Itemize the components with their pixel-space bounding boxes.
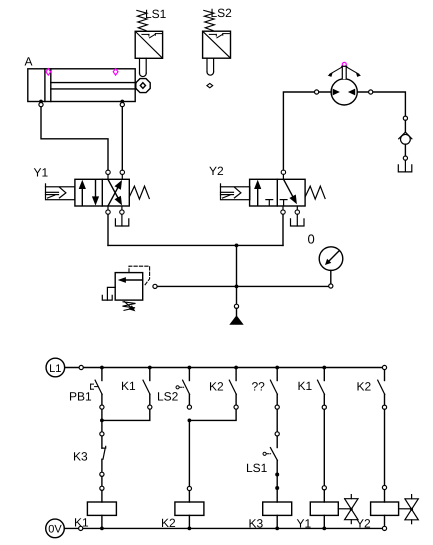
coil Y2 upper ring [382, 485, 386, 489]
wire gauge stem [330, 270, 332, 283]
wire K1b branch down [323, 409, 325, 485]
valve symbol Y2 [399, 495, 419, 524]
wire K2a to merge [192, 409, 237, 420]
valve V1 port rings [106, 170, 125, 214]
roller on cylinder rod [136, 79, 150, 93]
coil Y1 upper ring [322, 486, 326, 490]
contact PB1 label [69, 389, 92, 403]
air motor rotation arrow left [328, 67, 342, 77]
bottom rail junction K2 [188, 527, 192, 531]
contact LS1 label [246, 461, 268, 475]
junction LS1 lower [275, 473, 279, 477]
contact K1a (NO) [143, 368, 150, 405]
connection ring source [234, 304, 238, 308]
limit switch LS2 plunger [207, 58, 214, 75]
wire ring to coil K2 [188, 491, 190, 502]
valve V1 right box crossed arrow up [108, 180, 122, 206]
contact K3 (NC) [102, 436, 106, 472]
contact ?? label [252, 379, 266, 393]
svg-text:LS2: LS2 [157, 390, 179, 404]
wire K2b branch down [384, 409, 386, 485]
wire junction to coil K3 [276, 488, 278, 502]
coil K1 label [74, 515, 89, 529]
wire ring to coil K1 [101, 491, 103, 503]
contact K2b lower ring [382, 405, 386, 409]
relay coil K3 [263, 502, 292, 515]
wire valve V2 supply down [282, 214, 284, 245]
junction supply left [235, 244, 239, 248]
svg-text:K1: K1 [121, 379, 136, 393]
wire ring to coil Y1 [323, 490, 325, 502]
air motor rotation arrow right [347, 67, 361, 77]
junction supply lower [235, 285, 239, 289]
contact K2b label [357, 379, 372, 393]
bottom rail junction K1 [100, 527, 104, 531]
svg-text:PB1: PB1 [69, 389, 92, 403]
wire check valve to ring [404, 144, 406, 156]
bottom rail end ring Y2 [382, 526, 386, 530]
svg-text:A: A [25, 55, 33, 69]
contact K1b lower ring [322, 405, 326, 409]
contact LS2 lower ring [187, 405, 191, 409]
connection ring gauge [329, 284, 333, 288]
wire coil K2 to 0V rail [188, 515, 190, 528]
valve V2 left box up arrow [254, 180, 261, 206]
valve V2 return spring [305, 186, 325, 199]
wire cylinder right port to valve V1 [121, 107, 123, 170]
coil K3 upper junction [275, 486, 279, 490]
valve symbol Y1 [338, 495, 358, 524]
connection ring relief valve output [153, 284, 157, 288]
wire ?? branch down [276, 409, 278, 431]
svg-text:0: 0 [308, 232, 315, 247]
svg-text:K3: K3 [73, 450, 88, 464]
contact PB1 (NO pushbutton) [91, 368, 103, 405]
wire relief valve to gauge [157, 285, 328, 287]
connection ring cylinder left port [39, 103, 43, 107]
exhaust tank bottom right [398, 160, 412, 172]
contact LS2 (NO limit switch) [176, 368, 190, 405]
contact K2a label [209, 379, 224, 393]
valve V1 left box up arrow [79, 180, 86, 206]
supply 0V terminal [46, 519, 65, 538]
contact ?? (NO) [270, 368, 277, 405]
junction PB1 merge [100, 419, 104, 423]
wire LS2 branch down to coil K2 [188, 420, 190, 486]
limit switch LS1 body [135, 31, 162, 58]
valve solenoid coil Y1 [310, 502, 338, 515]
wire K3 to coil K1 [101, 477, 103, 487]
coil K2 label [161, 516, 176, 530]
valve V1 body [75, 179, 129, 206]
valve V2 port stubs [283, 175, 297, 210]
cylinder A label [25, 55, 33, 69]
wire supply manifold horizontal [108, 244, 283, 246]
valve V2 solenoid Y2 [221, 184, 250, 200]
limit switch LS2 spring [204, 10, 215, 30]
valve V1 exhaust tank [115, 214, 128, 226]
pressure relief valve pilot line (dashed) [129, 266, 150, 285]
wire coil K1 to 0V rail [101, 515, 103, 528]
svg-text:LS1: LS1 [145, 7, 167, 21]
contact PB1 lower ring [100, 405, 104, 409]
wire air motor right to check valve branch [357, 92, 405, 116]
air motor shaft [342, 66, 347, 79]
marker diamond right (magenta) [113, 69, 118, 76]
valve V1 return spring [129, 186, 149, 199]
rail junction K1a [148, 366, 152, 370]
wire coil Y2 to rail end ring [384, 515, 386, 525]
cylinder A [28, 69, 136, 102]
connection ring motor left [315, 90, 319, 94]
svg-text:0V: 0V [48, 524, 62, 536]
relay coil K1 [87, 502, 116, 515]
contact K1a label [121, 379, 136, 393]
contact LS1 upper ring [275, 432, 279, 436]
rail junction K1b [322, 366, 326, 370]
limit switch LS2 cam diamond [207, 83, 213, 87]
contact K2a (NO) [229, 368, 236, 405]
valve V1 solenoid Y1 [46, 184, 75, 200]
contact K1b label [298, 379, 313, 393]
pressure relief valve exhaust [102, 287, 115, 300]
rail junction LS2 [188, 366, 192, 370]
valve V2 right box blocked port [280, 200, 287, 206]
valve V1 right box crossed arrow down [108, 179, 122, 205]
junction cylinder left port [39, 100, 43, 104]
limit switch LS2 body [203, 31, 231, 58]
junction cylinder right port [120, 100, 124, 104]
contact K3 label [73, 450, 88, 464]
rail junction ?? [275, 366, 279, 370]
coil K2 upper ring [187, 486, 191, 490]
wire K1a to merge [104, 409, 150, 420]
limit switch LS1 plunger [140, 58, 147, 76]
rail end ring K2b [382, 365, 386, 369]
wire coil Y1 to 0V rail [323, 515, 325, 528]
limit switch LS2 label [211, 6, 233, 20]
svg-text:Y2: Y2 [209, 164, 224, 178]
bottom rail junction Y1 [322, 527, 326, 531]
valve V2 exhaust tank [291, 214, 305, 226]
supply L1 terminal [46, 358, 65, 377]
coil Y1 label [297, 517, 312, 531]
valve V2 right box diagonal arrow [284, 179, 297, 204]
wire PB1 branch down [101, 409, 103, 431]
connection ring motor right [369, 90, 373, 94]
pressure gauge value 0 [308, 232, 315, 247]
valve V1 left box down arrow [92, 180, 99, 206]
pressure relief valve body [115, 273, 143, 301]
connection ring after 0V [79, 526, 83, 530]
solenoid Y2 label [209, 164, 224, 178]
wire ring to check valve [404, 120, 406, 131]
rail junction PB1 [100, 366, 104, 370]
svg-text:K2: K2 [209, 379, 224, 393]
air motor shaft marker (magenta) [342, 62, 346, 66]
wire ring to coil Y2 [384, 490, 386, 502]
pressure gauge [319, 247, 343, 271]
contact K2a lower ring [234, 405, 238, 409]
svg-text:Y1: Y1 [34, 166, 49, 180]
contact ?? lower ring [275, 405, 279, 409]
check valve [399, 132, 412, 144]
contact LS1 (NO limit switch) [263, 436, 277, 472]
contact K3 lower ring [100, 472, 104, 476]
connection ring above check valve [403, 116, 407, 120]
solenoid Y1 label [34, 166, 49, 180]
pressure relief valve spring [123, 302, 136, 311]
valve V2 left box blocked port [266, 200, 273, 206]
svg-text:??: ?? [252, 379, 266, 393]
wire coil K3 to 0V rail [276, 515, 278, 528]
relay coil K2 [175, 502, 204, 515]
junction LS2 merge [188, 419, 192, 423]
wire supply vertical to source [236, 245, 238, 304]
valve V2 body [250, 179, 306, 206]
top rail wire [65, 367, 385, 369]
bottom rail wire [64, 527, 382, 529]
rail junction K2a [234, 366, 238, 370]
contact K1b (NO) [318, 368, 325, 405]
coil Y2 label [356, 517, 371, 531]
valve V2 port rings [281, 170, 300, 214]
svg-text:K2: K2 [357, 379, 372, 393]
contact K1a lower ring [148, 405, 152, 409]
contact K3 upper ring [100, 432, 104, 436]
svg-text:L1: L1 [49, 363, 61, 375]
contact K2b (NO) [378, 370, 385, 405]
connection ring cylinder right port [120, 103, 124, 107]
marker diamond left (magenta) [46, 69, 51, 76]
bottom rail junction K3 [275, 527, 279, 531]
coil K3 label [249, 517, 264, 531]
connection ring below check valve [403, 156, 407, 160]
wire valve V2 to air motor [283, 92, 331, 170]
connection ring after L1 [79, 365, 83, 369]
pressure relief valve adjust arrow [124, 302, 135, 312]
valve V1 port stubs [108, 175, 122, 210]
contact LS2 label [157, 390, 179, 404]
compressed air source [229, 309, 243, 325]
coil K1 upper ring [100, 486, 104, 490]
svg-text:LS1: LS1 [246, 461, 268, 475]
valve solenoid coil Y2 [371, 502, 399, 515]
limit switch LS1 label [145, 7, 167, 21]
wire LS1 to coil K3 [276, 475, 278, 489]
air motor [331, 79, 357, 105]
wire cylinder left port to valve V1 [41, 107, 108, 170]
wire valve V1 supply down [107, 214, 109, 245]
svg-text:K1: K1 [298, 379, 313, 393]
limit switch LS1 spring [137, 10, 148, 30]
